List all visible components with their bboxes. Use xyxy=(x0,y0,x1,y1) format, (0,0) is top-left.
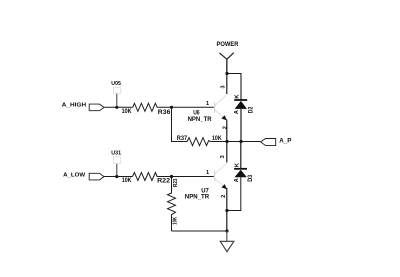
node R22/R23 junction xyxy=(170,175,173,178)
wire U6 emitter down xyxy=(226,120,228,142)
svg-text:1: 1 xyxy=(206,101,209,107)
diode D3 xyxy=(234,142,247,178)
wire R37 row xyxy=(172,107,188,141)
svg-text:K: K xyxy=(235,95,241,99)
diode D2 xyxy=(234,100,247,142)
power port arrow symbol xyxy=(219,53,233,60)
node A_LOW junction xyxy=(115,175,118,178)
svg-text:D3: D3 xyxy=(247,174,254,181)
transistor U7 xyxy=(215,163,227,189)
svg-text:U31: U31 xyxy=(111,150,122,156)
wire R22 to U7 base xyxy=(159,176,214,178)
wire bottom row xyxy=(172,230,228,232)
connector A_LOW port xyxy=(89,173,104,180)
svg-text:NPN_TR: NPN_TR xyxy=(185,193,210,200)
wire junction to U31 xyxy=(116,164,118,177)
svg-text:POWER: POWER xyxy=(217,41,239,48)
svg-text:A: A xyxy=(234,110,240,114)
resistor R36 xyxy=(132,103,159,111)
wire power vertical xyxy=(226,59,228,73)
node A_HIGH junction xyxy=(115,106,118,109)
svg-text:U05: U05 xyxy=(111,81,121,87)
svg-text:2: 2 xyxy=(222,126,228,129)
svg-text:10K: 10K xyxy=(122,177,132,184)
svg-text:K: K xyxy=(234,163,240,167)
wire junction to U05 xyxy=(116,93,118,107)
wire R37 to A_P xyxy=(210,141,260,143)
node emitter junction xyxy=(225,140,228,143)
connector A_HIGH port xyxy=(89,104,104,111)
svg-text:NPN_TR: NPN_TR xyxy=(188,116,213,123)
resistor R23 vertical xyxy=(168,177,176,232)
svg-text:R36: R36 xyxy=(158,109,171,116)
connector A_P port xyxy=(261,139,276,146)
wire A_HIGH to R36 xyxy=(104,106,132,108)
node R36/R37 junction xyxy=(170,106,173,109)
svg-text:10K: 10K xyxy=(173,217,179,225)
svg-text:10K: 10K xyxy=(122,108,132,115)
svg-text:R23: R23 xyxy=(173,178,179,187)
svg-text:D2: D2 xyxy=(247,106,254,113)
svg-text:3: 3 xyxy=(220,155,226,158)
wire U7 collector xyxy=(226,142,228,163)
svg-text:A_HIGH: A_HIGH xyxy=(62,103,86,109)
wire A_LOW to R22 xyxy=(104,176,133,178)
node power junction xyxy=(225,72,228,75)
resistor R22 xyxy=(133,173,159,181)
wire R36 to U6 base xyxy=(159,106,214,108)
svg-text:3: 3 xyxy=(220,85,226,88)
node diode junction xyxy=(239,140,242,143)
svg-text:R22: R22 xyxy=(157,178,171,185)
wire to ground xyxy=(226,231,228,241)
node emitter-D3 junction xyxy=(225,209,228,212)
svg-text:A_P: A_P xyxy=(279,137,291,144)
resistor R37 xyxy=(187,138,210,146)
svg-text:A: A xyxy=(234,178,240,182)
node ground junction xyxy=(225,229,228,232)
testpoint U05 box xyxy=(114,87,121,93)
wire U7 emitter down xyxy=(226,188,228,231)
svg-text:2: 2 xyxy=(221,195,227,198)
wire emitter to D3 xyxy=(227,177,241,210)
wire U6 collector xyxy=(226,74,228,95)
ground xyxy=(220,241,234,251)
svg-text:A_LOW: A_LOW xyxy=(63,172,86,178)
svg-text:R37: R37 xyxy=(177,135,188,142)
testpoint U31 box xyxy=(114,157,121,164)
transistor U6 xyxy=(215,95,227,121)
wire power to D2 branch xyxy=(227,74,241,101)
svg-text:1: 1 xyxy=(206,170,209,176)
